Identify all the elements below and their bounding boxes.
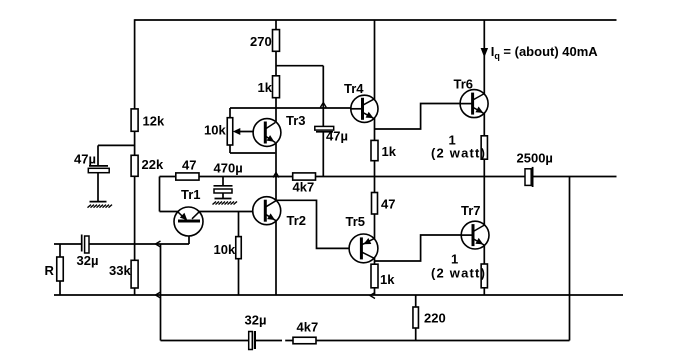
junction tick at Tr5 1k / ground rail [370,293,375,299]
svg-text:4k7: 4k7 [297,320,319,335]
capacitor 470u (body) [214,185,233,187]
svg-text:32µ: 32µ [77,253,99,268]
wire: top supply rail [135,19,617,21]
wire: input line left of 32u [54,243,82,245]
capacitor 32u input (body) [81,235,83,252]
svg-text:(2 watt): (2 watt) [431,146,486,161]
wire: 47 ohm row down to Tr1 emitter [159,177,161,212]
svg-text:33k: 33k [109,263,131,278]
svg-text:Tr7: Tr7 [461,203,481,218]
wire: mid output node horizontal [160,176,526,178]
transistor Tr4 (NPN) [351,95,378,122]
trimmer wiper arrow (10k) [233,128,241,135]
svg-text:Tr5: Tr5 [346,214,366,229]
wire: Tr1 emitter lead [160,211,179,213]
wire: Tr3 collector row to Tr4 base [230,107,351,109]
wire: 470u cap top lead [222,177,224,186]
wire: trimmer bottom to Tr3 emitter [230,152,275,154]
capacitor 2500u output (body) [525,169,531,186]
wire: Tr1 base lead down [188,221,190,244]
transistor Tr6 (NPN) [460,90,488,118]
resistor 10k trimmer (body) [227,118,233,145]
resistor 1k Tr5-collector (body) [371,264,378,288]
resistor 47 Tr5-emitter (body) [372,193,378,215]
wire: 47u cap bottom lead [97,173,99,202]
wire: 12k/22k junction to 47u cap [98,144,135,146]
resistor 1 ohm 2W Tr6 (body) [481,136,487,159]
svg-text:1: 1 [451,252,458,267]
svg-text:47: 47 [182,158,196,173]
current arrow Iq (on Tr6 collector wire) [481,48,489,58]
wire: output line right of 2500u [533,176,617,178]
wire: Tr5 collector to Tr7 base jog [375,235,462,261]
transistor Tr2 (NPN) [253,197,281,225]
junction tick at ground rail / feedback drop [156,292,161,298]
svg-text:1k: 1k [382,144,397,159]
resistor 33k (body) [131,260,138,288]
resistor 47 Tr1-emitter (body) [176,173,199,180]
svg-text:Tr3: Tr3 [286,113,306,128]
resistor 1k upper (body) [273,76,280,98]
svg-text:32µ: 32µ [245,313,267,328]
wire: ground rail [54,294,623,296]
svg-text:Tr4: Tr4 [344,81,364,96]
resistor 4k7 feedback (body) [293,337,316,344]
wire: Tr6/Tr7 chain vertical [483,20,485,295]
wire: bottom feedback rail (right, after break) [285,340,569,342]
svg-text:10k: 10k [204,123,226,138]
resistor 270 (body) [273,30,280,52]
wire: 270-1k junction to Tr4 base node (horiz) [276,65,323,67]
wire: Tr4 emitter to Tr6 base jog [375,104,461,130]
svg-text:1k: 1k [258,80,273,95]
capacitor 47u decoupling (left) [89,165,108,167]
svg-text:4k7: 4k7 [293,180,315,195]
resistor 10k bias (body) [236,237,242,259]
ground symbol (470u) [213,199,238,205]
wire: 47u cap top lead [97,145,99,166]
wire: down to 47u/base node [322,66,324,108]
svg-text:47µ: 47µ [74,152,96,167]
svg-text:Tr2: Tr2 [287,213,307,228]
svg-text:R: R [45,263,55,278]
wire: 470u cap bottom lead [222,193,224,199]
resistor 12k (body) [131,109,138,131]
junction tick at Tr2 collector / output line [273,173,279,178]
wire: bottom feedback rail (left) [161,340,249,342]
svg-text:220: 220 [424,311,446,326]
svg-text:Iq = (about) 40mA: Iq = (about) 40mA [491,44,599,61]
svg-text:(2 watt): (2 watt) [431,266,486,281]
wire: 10k bias resistor vertical [238,212,240,296]
transistor Tr7 (NPN) [461,221,489,249]
wire: Tr2 collector to Tr5 base jog [276,200,359,248]
wire: input shunt R vertical [59,244,61,295]
ground symbol (47u) [88,202,113,208]
wire: 220 resistor leads [415,295,417,341]
wire: bottom feedback rail (mid) [255,340,282,342]
wire: Tr3/Tr2 chain vertical (270,1k) [275,20,277,295]
svg-text:12k: 12k [143,114,165,129]
resistor 220 (body) [413,307,419,328]
wire: 47u cap bottom lead [322,132,324,177]
svg-text:Tr1: Tr1 [181,187,201,202]
capacitor 47u Tr4-base [315,126,334,130]
wire: 47u cap top lead [322,108,324,126]
junction tick at input node [156,241,161,247]
wire: output down to feedback rail [569,177,571,341]
junction tick at Tr4 base node [320,103,326,108]
transistor Tr5 (PNP) [349,234,378,263]
svg-text:22k: 22k [142,157,164,172]
resistor 22k (body) [131,155,138,176]
svg-text:47: 47 [381,197,395,212]
svg-text:47µ: 47µ [326,129,348,144]
transistor Tr3 (NPN) [253,119,281,147]
wire: 10k trimmer vertical [229,108,231,153]
svg-text:1k: 1k [380,272,395,287]
svg-text:10k: 10k [214,242,236,257]
wire: Tr1 collector to Tr2 base [199,211,265,213]
wire: input junction down to feedback rail [160,244,162,341]
wire: input line 32u to Tr1 base [89,243,189,245]
transistor Tr1 (PNP, rotated) [174,207,203,236]
svg-text:470µ: 470µ [214,161,243,176]
resistor 4k7 mid (body) [293,173,316,180]
wire: trimmer wiper to Tr3 base [236,131,264,133]
resistor 1 ohm 2W Tr7 (body) [481,264,487,288]
wire: Tr4/Tr5 chain vertical [374,20,376,295]
resistor 1k Tr4-emitter (body) [371,140,378,160]
svg-text:Tr6: Tr6 [454,77,474,92]
svg-text:270: 270 [250,34,272,49]
wire: left bias chain vertical (12k/22k/33k) [134,19,136,295]
capacitor 32u feedback (body) [249,332,253,350]
resistor R input (body) [57,257,64,281]
svg-text:2500µ: 2500µ [517,151,553,166]
